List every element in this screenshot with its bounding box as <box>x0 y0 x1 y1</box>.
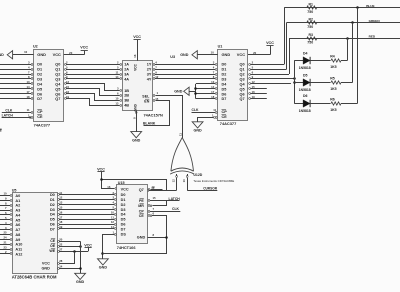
wire ROM OE to ground bus <box>58 246 60 248</box>
svg-text:17: 17 <box>59 215 63 219</box>
svg-text:20: 20 <box>69 51 73 55</box>
wire ground to tie bus <box>189 91 196 93</box>
svg-text:2A: 2A <box>124 68 129 72</box>
svg-text:12: 12 <box>155 75 159 79</box>
svg-text:15: 15 <box>59 206 63 210</box>
svg-text:A5: A5 <box>15 218 20 222</box>
node blue junction <box>356 6 359 9</box>
svg-text:A6: A6 <box>15 223 20 227</box>
svg-text:A9: A9 <box>15 238 20 242</box>
wire blue video line <box>284 7 400 9</box>
svg-text:D7: D7 <box>37 97 42 101</box>
wire cathode D4 <box>310 60 330 62</box>
svg-text:A8: A8 <box>15 233 20 237</box>
svg-text:CE: CE <box>37 115 43 119</box>
svg-text:D6: D6 <box>303 94 308 98</box>
ground below ROM <box>75 273 86 279</box>
svg-text:WE: WE <box>49 249 55 253</box>
svg-text:10: 10 <box>24 50 28 54</box>
wire U15 MR pin 9 <box>148 205 150 207</box>
svg-text:3Y: 3Y <box>147 73 152 77</box>
svg-text:D2: D2 <box>50 203 55 207</box>
svg-text:22: 22 <box>59 242 63 246</box>
wire U15 DS to ground <box>114 234 116 236</box>
svg-text:VCC: VCC <box>237 52 245 57</box>
wire U1 D7 tie <box>196 98 215 100</box>
svg-text:A0: A0 <box>15 194 20 198</box>
wire U15 PE LATCH net <box>148 200 150 202</box>
svg-text:VCC: VCC <box>42 261 50 265</box>
svg-text:17: 17 <box>211 90 215 94</box>
svg-text:25: 25 <box>3 231 7 235</box>
xor gate U12D (rotated, output up) <box>170 138 194 175</box>
wire ROM D5 to U15 D5 <box>58 219 60 221</box>
svg-text:27: 27 <box>59 248 63 252</box>
svg-text:R1: R1 <box>309 2 314 6</box>
tied-low inputs D4-D7 of U1 <box>195 84 197 99</box>
svg-text:VCC: VCC <box>134 63 138 71</box>
svg-text:13: 13 <box>211 80 215 84</box>
wire cathode D5 <box>310 82 330 84</box>
svg-text:Q1: Q1 <box>55 68 60 72</box>
wire anode D6 <box>294 103 303 105</box>
wire U2 Q2 to mux 3A <box>65 74 67 76</box>
svg-text:D3: D3 <box>222 77 227 81</box>
wire R4 up to video line <box>341 60 347 62</box>
svg-text:11: 11 <box>59 191 62 195</box>
svg-text:16: 16 <box>252 90 256 94</box>
wire mux EN to BLANK net <box>153 100 155 102</box>
wire U1 D4 tie <box>196 83 215 85</box>
svg-text:R3: R3 <box>309 33 314 37</box>
svg-text:GND: GND <box>76 280 85 284</box>
wire ROM D0 to U15 D0 <box>58 194 60 196</box>
svg-text:23: 23 <box>3 245 7 249</box>
wire U2 VCC pin 20 <box>64 54 84 56</box>
svg-text:R5: R5 <box>330 77 335 81</box>
U2 input wires D0-D7 <box>0 64 31 66</box>
svg-text:15: 15 <box>155 97 159 101</box>
wire ROM D6 to U15 D6 <box>58 224 60 226</box>
wire VCC feed jog <box>102 180 167 191</box>
shift register U15 74HCT166 <box>117 185 148 244</box>
wire U2 Q0 to mux 1A <box>65 64 67 66</box>
svg-text:CURSOR: CURSOR <box>203 186 218 190</box>
wire U1 Q0 to blue line <box>249 64 251 66</box>
svg-text:12: 12 <box>59 196 63 200</box>
svg-text:24: 24 <box>3 236 7 240</box>
svg-text:D7: D7 <box>121 227 126 231</box>
node OE junction <box>79 245 82 248</box>
svg-text:Q3: Q3 <box>240 77 245 81</box>
svg-text:DS: DS <box>121 233 127 237</box>
svg-text:Q7: Q7 <box>139 188 144 192</box>
svg-text:21: 21 <box>3 240 7 244</box>
svg-text:MR: MR <box>138 204 144 208</box>
junction dots on tie bus <box>194 87 197 90</box>
svg-text:19: 19 <box>66 95 70 99</box>
wire U1 Q5 stub <box>249 88 251 90</box>
svg-text:28: 28 <box>59 259 63 263</box>
svg-text:15: 15 <box>252 85 256 89</box>
svg-text:LATCH: LATCH <box>169 197 181 201</box>
svg-text:2Y: 2Y <box>147 68 152 72</box>
resistor R3 750 <box>307 37 317 40</box>
svg-text:1K5: 1K5 <box>330 65 336 69</box>
svg-text:D6: D6 <box>37 92 42 96</box>
svg-text:Q5: Q5 <box>55 87 60 91</box>
wire PE to MR jog <box>153 201 167 206</box>
svg-text:D7: D7 <box>222 97 227 101</box>
svg-text:18: 18 <box>211 95 215 99</box>
svg-text:13: 13 <box>26 80 30 84</box>
svg-text:A2: A2 <box>15 204 20 208</box>
svg-text:D5: D5 <box>37 87 42 91</box>
svg-text:Q2: Q2 <box>55 73 60 77</box>
node anode bus junction <box>293 81 296 84</box>
node WE junction <box>73 250 76 253</box>
wire U1 Q4 stub <box>249 83 251 85</box>
ground below mux <box>131 132 142 138</box>
svg-text:1K5: 1K5 <box>330 87 336 91</box>
svg-text:11: 11 <box>111 215 114 219</box>
svg-text:A1: A1 <box>15 199 20 203</box>
xor input pin 12 <box>176 174 178 176</box>
wire ground bus vertical <box>80 241 82 273</box>
svg-text:14: 14 <box>115 75 119 79</box>
svg-text:GND: GND <box>99 266 108 270</box>
svg-text:1Y: 1Y <box>147 63 152 67</box>
svg-text:SEL: SEL <box>142 95 150 99</box>
svg-text:D1: D1 <box>50 198 55 202</box>
svg-text:19: 19 <box>59 225 63 229</box>
svg-text:VCC: VCC <box>266 41 274 45</box>
wire U1 Q2 to red line <box>249 74 251 76</box>
svg-text:GND: GND <box>222 52 231 57</box>
resistor R6 1K5 <box>331 102 341 105</box>
svg-text:D0: D0 <box>121 193 126 197</box>
svg-text:CE: CE <box>50 239 56 243</box>
svg-text:A10: A10 <box>15 243 22 247</box>
svg-text:4A: 4A <box>124 77 129 81</box>
wire mux GND pin 8 <box>136 111 138 132</box>
svg-text:1K5: 1K5 <box>330 108 336 112</box>
svg-text:Q1: Q1 <box>240 68 245 72</box>
register U1 74AC377 <box>218 50 248 121</box>
svg-text:VCC: VCC <box>121 187 129 191</box>
svg-text:CP: CP <box>222 110 228 114</box>
svg-text:74HCT166: 74HCT166 <box>117 245 137 250</box>
svg-text:13: 13 <box>59 201 63 205</box>
svg-text:4B: 4B <box>124 104 129 108</box>
svg-text:D5: D5 <box>121 218 126 222</box>
svg-text:D5: D5 <box>50 218 55 222</box>
svg-text:D3: D3 <box>37 77 42 81</box>
svg-text:D4: D4 <box>303 51 308 55</box>
svg-text:750: 750 <box>307 40 313 44</box>
wire U2 Q6 to mux 3B <box>65 93 67 95</box>
svg-text:D0: D0 <box>37 63 42 67</box>
node DS ground junction <box>101 252 104 255</box>
svg-text:GND: GND <box>134 103 138 111</box>
wire xor right input to CURSOR <box>187 178 189 191</box>
wire U1 VCC pin 20 <box>248 54 270 56</box>
svg-text:GND: GND <box>174 90 183 94</box>
svg-text:U12D: U12D <box>193 173 202 177</box>
wire R5 up to video line <box>341 82 352 84</box>
svg-text:A7: A7 <box>15 228 20 232</box>
node GND junction <box>165 236 168 239</box>
svg-text:10: 10 <box>211 50 215 54</box>
svg-text:GND: GND <box>41 266 50 270</box>
wire U2 Q3 to mux 4A <box>65 78 67 80</box>
wire U1 Q1 to green line <box>249 69 251 71</box>
wire U15 Q7 output <box>148 189 150 191</box>
wire U2 Q4 to mux 1B <box>65 83 67 85</box>
svg-text:R6: R6 <box>330 97 335 101</box>
ground symbol U2 pin10 <box>7 51 12 59</box>
wire U1 Q6 stub <box>249 93 251 95</box>
svg-text:4Y: 4Y <box>147 77 152 81</box>
svg-text:16: 16 <box>59 210 63 214</box>
svg-text:D0: D0 <box>50 193 55 197</box>
svg-text:D6: D6 <box>50 223 55 227</box>
svg-text:14: 14 <box>59 264 63 268</box>
wire cathode D6 <box>310 103 330 105</box>
svg-text:74AC157N: 74AC157N <box>144 113 163 118</box>
node green junction <box>351 21 354 24</box>
wire ROM D3 to U15 D3 <box>58 209 60 211</box>
svg-text:VCC: VCC <box>133 35 141 39</box>
svg-text:Q5: Q5 <box>240 87 245 91</box>
svg-text:D2: D2 <box>37 73 42 77</box>
svg-text:R2: R2 <box>309 17 314 21</box>
svg-text:CP: CP <box>139 210 145 214</box>
node red junction <box>346 37 349 40</box>
svg-text:Q2: Q2 <box>240 73 245 77</box>
svg-text:PE: PE <box>139 199 144 203</box>
xor input pin 13 <box>187 174 189 176</box>
svg-text:12: 12 <box>66 80 70 84</box>
svg-text:14: 14 <box>26 85 30 89</box>
wire VCC stub <box>88 247 90 251</box>
multiplexer U3 74AC157N <box>123 61 153 111</box>
svg-text:15: 15 <box>66 85 70 89</box>
svg-text:15: 15 <box>153 196 157 200</box>
svg-text:750: 750 <box>307 10 313 14</box>
svg-text:D2: D2 <box>121 203 126 207</box>
svg-text:BLUE: BLUE <box>366 4 374 8</box>
wire diode anode bus <box>294 61 296 104</box>
svg-text:D2: D2 <box>222 73 227 77</box>
node VCC junction <box>100 178 103 181</box>
svg-text:10: 10 <box>115 96 119 100</box>
wire U1 CE to ground <box>215 117 217 119</box>
svg-text:U5: U5 <box>12 189 17 193</box>
svg-text:CE: CE <box>139 214 145 218</box>
svg-text:U2: U2 <box>33 45 38 49</box>
svg-text:74AC377: 74AC377 <box>220 121 236 126</box>
ground below U1 CE <box>192 122 203 128</box>
diode D6 1N5818 <box>303 100 310 107</box>
svg-text:D0: D0 <box>222 63 227 67</box>
svg-text:Q4: Q4 <box>240 82 246 86</box>
svg-text:CLK: CLK <box>192 108 200 112</box>
VCC above U1 <box>266 45 273 47</box>
svg-text:GND: GND <box>137 236 146 240</box>
svg-text:20: 20 <box>253 51 257 55</box>
svg-text:CLK: CLK <box>5 108 13 112</box>
ground below U15 DS <box>98 259 109 265</box>
wire U2 Q7 to mux 4B <box>65 98 67 100</box>
svg-text:1B: 1B <box>124 89 129 93</box>
svg-text:14: 14 <box>111 225 115 229</box>
svg-text:Q7: Q7 <box>55 97 60 101</box>
svg-text:12: 12 <box>171 179 175 182</box>
ground symbol tied inputs <box>184 87 189 95</box>
svg-text:74AC377: 74AC377 <box>34 122 50 127</box>
svg-text:16: 16 <box>107 185 111 189</box>
svg-text:3B: 3B <box>124 99 129 103</box>
svg-text:CP: CP <box>37 110 43 114</box>
svg-text:D5: D5 <box>303 73 308 77</box>
svg-text:Q4: Q4 <box>55 82 61 86</box>
VCC symbol above U2 <box>81 50 88 52</box>
svg-text:12: 12 <box>111 220 115 224</box>
svg-text:Q6: Q6 <box>55 92 60 96</box>
svg-text:D6: D6 <box>222 92 227 96</box>
wire U1 Q7 stub <box>249 98 251 100</box>
svg-text:1N5818: 1N5818 <box>299 109 311 113</box>
svg-text:13: 13 <box>182 179 186 182</box>
svg-text:U1: U1 <box>218 45 223 49</box>
svg-text:U15: U15 <box>118 181 125 185</box>
diode D4 1N5818 <box>303 57 310 64</box>
diode D5 1N5818 <box>303 79 310 86</box>
svg-text:D3: D3 <box>50 208 55 212</box>
svg-text:U3: U3 <box>170 55 175 59</box>
svg-text:16: 16 <box>66 90 70 94</box>
svg-text:GND: GND <box>180 53 189 57</box>
svg-text:VCC: VCC <box>53 52 61 57</box>
svg-text:11: 11 <box>213 108 216 112</box>
wire U1 GND pin 10 <box>197 54 218 56</box>
svg-text:GND: GND <box>0 53 4 57</box>
svg-text:3A: 3A <box>124 73 129 77</box>
wire U2 Q5 to mux 2B <box>65 88 67 90</box>
svg-text:EN: EN <box>144 100 149 104</box>
svg-text:BLANK: BLANK <box>143 122 156 126</box>
svg-text:10: 10 <box>3 192 7 196</box>
svg-text:Q3: Q3 <box>55 77 60 81</box>
svg-text:1N5818: 1N5818 <box>299 66 311 70</box>
svg-text:VCC: VCC <box>84 243 92 247</box>
svg-text:19: 19 <box>252 95 256 99</box>
svg-text:GREEN: GREEN <box>369 19 381 23</box>
svg-text:Texas Instruments CD74AC86E: Texas Instruments CD74AC86E <box>193 179 234 183</box>
svg-text:14: 14 <box>211 85 215 89</box>
wire U1 Q3 to diode bus <box>249 78 251 80</box>
wire ROM D1 to U15 D1 <box>58 199 60 201</box>
wire R6 up to video line <box>341 103 358 105</box>
wire ROM D4 to U15 D4 <box>58 214 60 216</box>
svg-text:10: 10 <box>111 210 115 214</box>
svg-text:VCC: VCC <box>80 46 88 50</box>
wire U15 GND pin 8 <box>148 237 167 239</box>
node Q3 junction <box>293 77 296 80</box>
svg-text:Q0: Q0 <box>240 63 245 67</box>
wire ROM D2 to U15 D2 <box>58 204 60 206</box>
wire U15 CP CLK net <box>148 211 150 213</box>
svg-text:A11: A11 <box>15 248 22 252</box>
wire green video line <box>287 22 400 24</box>
svg-text:CE: CE <box>222 115 228 119</box>
svg-text:A12: A12 <box>15 252 22 256</box>
resistor R2 750 <box>307 21 317 24</box>
wire anode D4 <box>294 60 303 62</box>
wire mux 3Y to U1 D2 <box>153 74 155 76</box>
svg-text:GND: GND <box>132 138 141 142</box>
wire ROM VCC pin 28 <box>58 263 60 265</box>
svg-text:D3: D3 <box>121 208 126 212</box>
wire ROM GND pin 14 <box>58 268 60 270</box>
VCC above U15 <box>97 171 104 173</box>
svg-text:12: 12 <box>252 80 256 84</box>
svg-text:D1: D1 <box>121 198 126 202</box>
svg-text:11: 11 <box>179 133 183 136</box>
node GND pin junction <box>79 267 82 270</box>
wire U2 Q1 to mux 2A <box>65 69 67 71</box>
svg-text:13: 13 <box>152 185 156 189</box>
svg-text:AT28C64B CHAR ROM: AT28C64B CHAR ROM <box>12 275 57 280</box>
svg-text:18: 18 <box>59 220 63 224</box>
svg-text:1A: 1A <box>124 63 129 67</box>
svg-text:A3: A3 <box>15 209 20 213</box>
svg-text:R4: R4 <box>330 55 335 59</box>
eprom U5 AT28C64B <box>13 193 58 274</box>
svg-text:11: 11 <box>116 70 119 74</box>
cut-off label at left edge <box>0 129 2 130</box>
svg-text:D5: D5 <box>222 87 227 91</box>
wire VCC to U15 pin 16 <box>102 172 115 189</box>
svg-text:Q0: Q0 <box>55 63 60 67</box>
svg-text:D6: D6 <box>121 223 126 227</box>
wire anode D5 <box>294 82 303 84</box>
VCC above mux <box>134 39 141 41</box>
wire mux 1Y to U1 D0 <box>153 64 155 66</box>
svg-text:1N5818: 1N5818 <box>299 88 311 92</box>
resistor R4 1K5 <box>331 59 341 62</box>
wire ROM CE to ground bus <box>58 241 60 243</box>
svg-text:11: 11 <box>27 108 30 112</box>
svg-text:D1: D1 <box>222 68 227 72</box>
wire U15 CE to ground net <box>148 215 150 217</box>
wire U1 D6 tie <box>196 93 215 95</box>
svg-text:OE: OE <box>50 244 56 248</box>
svg-text:D7: D7 <box>50 227 55 231</box>
wire mux 4Y to U1 D3 <box>153 78 155 80</box>
resistor R5 1K5 <box>331 81 341 84</box>
svg-text:20: 20 <box>59 238 63 242</box>
wire ROM D7 to U15 D7 <box>58 228 60 230</box>
svg-text:RED: RED <box>369 35 376 39</box>
wire xor left input from U15 Q7 <box>176 178 178 191</box>
wire mux VCC pin 16 <box>137 40 139 61</box>
resistor R1 750 <box>307 6 317 9</box>
svg-text:VCC: VCC <box>97 167 105 171</box>
svg-text:D1: D1 <box>37 68 42 72</box>
wire red video line <box>289 38 400 40</box>
